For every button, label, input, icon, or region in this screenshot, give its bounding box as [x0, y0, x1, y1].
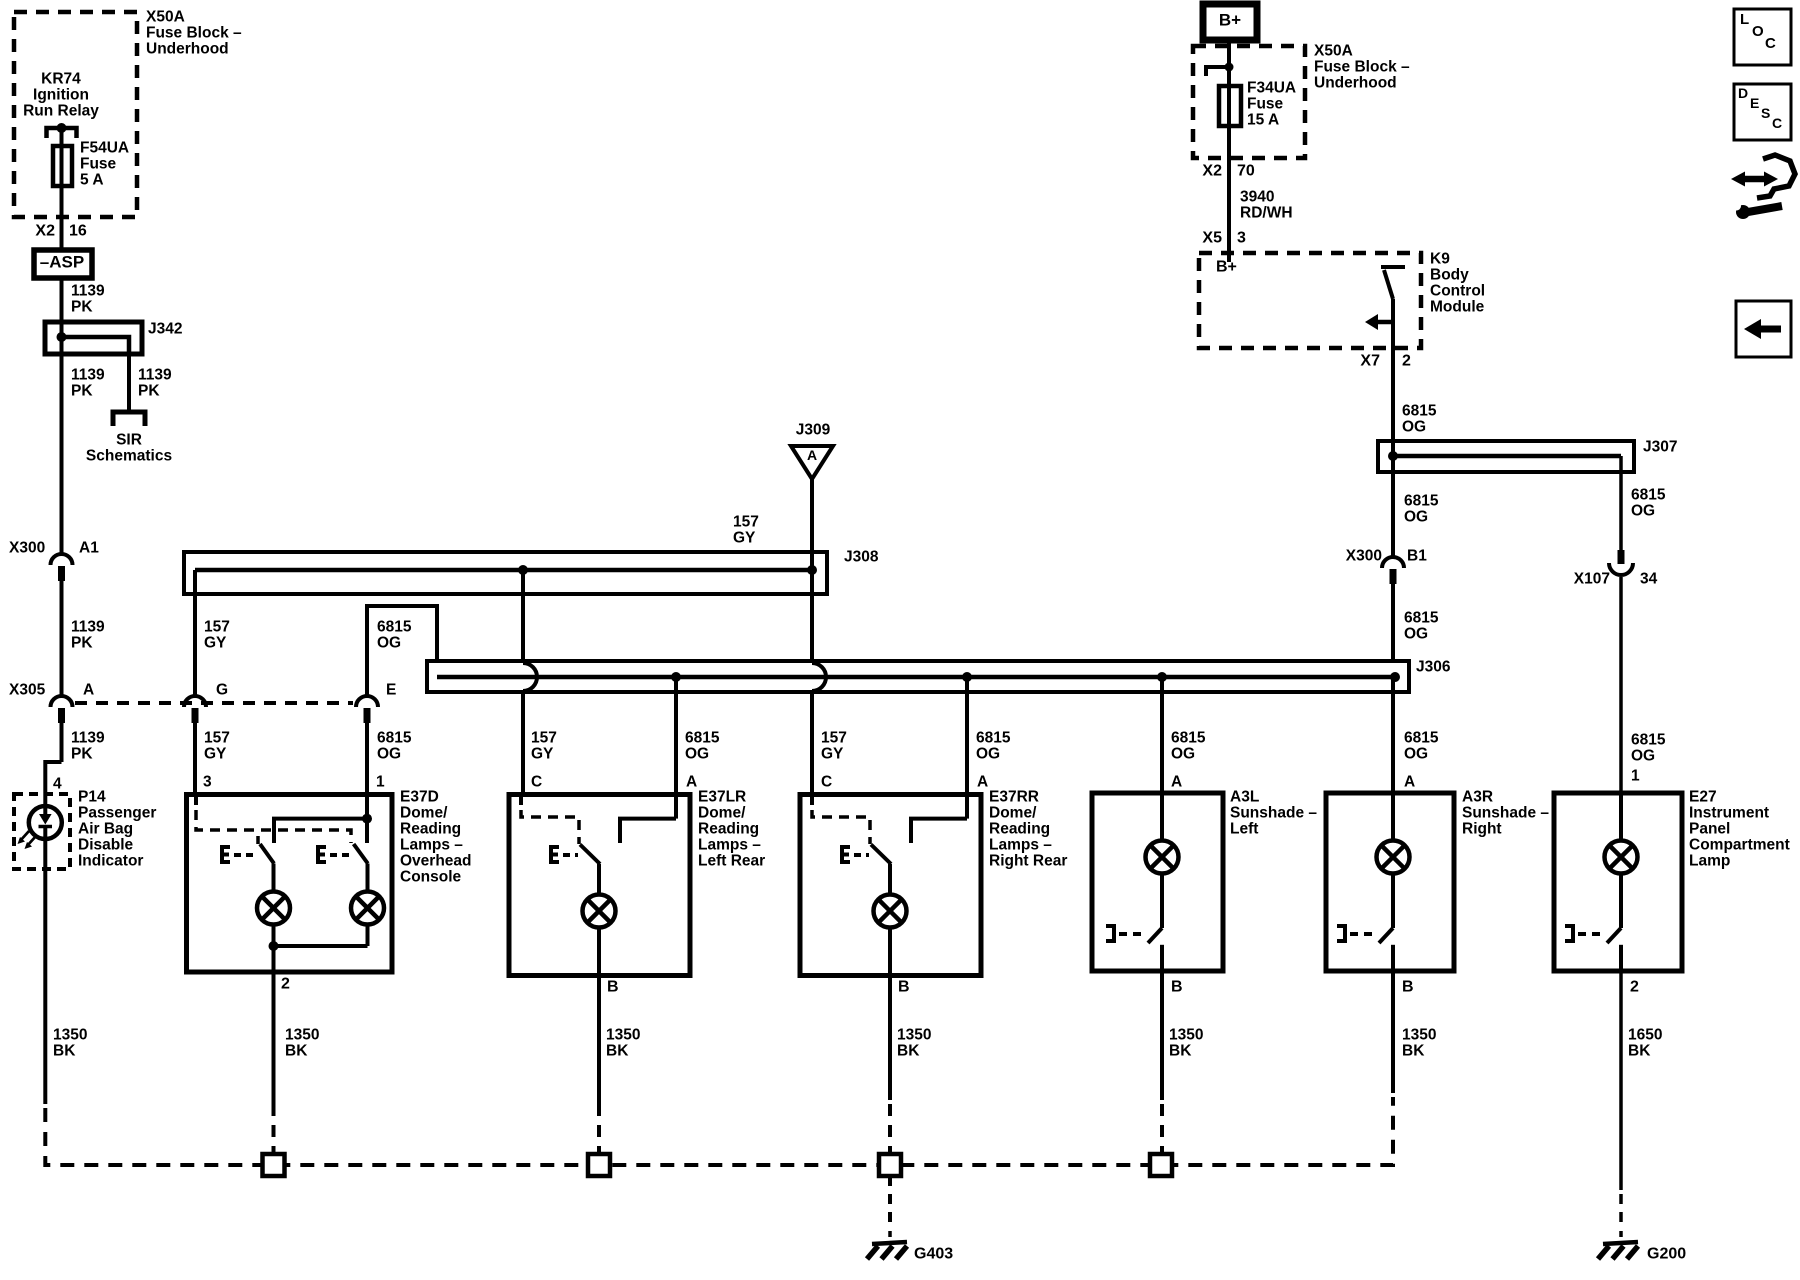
svg-text:Reading: Reading [989, 820, 1050, 837]
svg-text:B+: B+ [1219, 10, 1241, 29]
svg-text:Lamps –: Lamps – [698, 836, 761, 853]
svg-text:O: O [1752, 23, 1764, 40]
svg-text:1139: 1139 [71, 618, 105, 635]
svg-text:X107: X107 [1574, 570, 1610, 587]
svg-text:Passenger: Passenger [78, 804, 156, 821]
svg-text:GY: GY [204, 745, 227, 762]
svg-text:X5: X5 [1202, 230, 1222, 247]
svg-text:C: C [1772, 115, 1782, 131]
svg-text:F34UA: F34UA [1247, 79, 1296, 96]
svg-text:X7: X7 [1360, 353, 1380, 370]
svg-text:C: C [531, 773, 542, 790]
svg-text:E37D: E37D [400, 788, 439, 805]
svg-text:1350: 1350 [285, 1026, 319, 1043]
svg-text:BK: BK [53, 1042, 76, 1059]
svg-text:6815: 6815 [377, 618, 412, 635]
svg-text:Sunshade –: Sunshade – [1462, 804, 1549, 821]
svg-text:PK: PK [71, 298, 93, 315]
svg-text:K9: K9 [1430, 250, 1450, 267]
svg-text:1139: 1139 [71, 729, 105, 746]
svg-text:A: A [83, 681, 94, 698]
svg-text:OG: OG [1171, 745, 1195, 762]
svg-text:RD/WH: RD/WH [1240, 204, 1293, 221]
svg-text:E27: E27 [1689, 788, 1717, 805]
svg-text:Module: Module [1430, 298, 1485, 315]
svg-text:Disable: Disable [78, 836, 134, 853]
svg-text:C: C [821, 773, 832, 790]
svg-text:D: D [1738, 85, 1748, 101]
svg-text:OG: OG [1631, 747, 1655, 764]
svg-text:PK: PK [138, 382, 160, 399]
svg-text:6815: 6815 [1631, 731, 1666, 748]
svg-text:6815: 6815 [685, 729, 720, 746]
svg-text:Fuse: Fuse [1247, 95, 1284, 112]
svg-text:6815: 6815 [1404, 609, 1439, 626]
svg-text:157: 157 [531, 729, 557, 746]
svg-text:1139: 1139 [71, 282, 105, 299]
svg-text:16: 16 [69, 223, 87, 240]
svg-text:A: A [807, 447, 817, 463]
svg-text:Dome/: Dome/ [400, 804, 448, 821]
svg-text:157: 157 [204, 729, 230, 746]
svg-text:3: 3 [203, 773, 212, 790]
svg-text:E37LR: E37LR [698, 788, 746, 805]
svg-text:OG: OG [1404, 745, 1428, 762]
svg-text:Overhead: Overhead [400, 852, 472, 869]
svg-text:A: A [1404, 773, 1415, 790]
svg-text:BK: BK [1628, 1042, 1651, 1059]
svg-text:OG: OG [1404, 508, 1428, 525]
svg-text:Left Rear: Left Rear [698, 852, 765, 869]
svg-text:J307: J307 [1643, 438, 1677, 455]
svg-text:B+: B+ [1216, 259, 1237, 276]
svg-text:BK: BK [897, 1042, 920, 1059]
svg-text:34: 34 [1640, 570, 1658, 587]
svg-text:B: B [1171, 979, 1183, 996]
svg-text:1: 1 [1631, 767, 1640, 784]
svg-text:J308: J308 [844, 548, 879, 565]
svg-text:1350: 1350 [1169, 1026, 1203, 1043]
svg-text:1350: 1350 [897, 1026, 931, 1043]
svg-text:J306: J306 [1416, 658, 1451, 675]
svg-text:OG: OG [1404, 625, 1428, 642]
svg-text:KR74: KR74 [41, 70, 81, 87]
svg-text:6815: 6815 [1402, 402, 1437, 419]
svg-text:Sunshade –: Sunshade – [1230, 804, 1317, 821]
svg-text:1139: 1139 [138, 366, 172, 383]
svg-text:E37RR: E37RR [989, 788, 1039, 805]
svg-text:B: B [1402, 979, 1414, 996]
svg-text:A1: A1 [79, 539, 99, 556]
svg-text:Compartment: Compartment [1689, 836, 1790, 853]
svg-text:GY: GY [821, 745, 844, 762]
svg-text:OG: OG [1402, 418, 1426, 435]
svg-text:Ignition: Ignition [33, 86, 89, 103]
svg-text:157: 157 [733, 513, 759, 530]
svg-text:Fuse Block –: Fuse Block – [146, 24, 242, 41]
svg-text:1: 1 [376, 773, 385, 790]
svg-text:6815: 6815 [377, 729, 412, 746]
svg-text:A3R: A3R [1462, 788, 1493, 805]
svg-text:6815: 6815 [1171, 729, 1206, 746]
svg-text:6815: 6815 [1404, 729, 1439, 746]
svg-text:Reading: Reading [400, 820, 461, 837]
svg-text:BK: BK [285, 1042, 308, 1059]
svg-text:A: A [977, 773, 988, 790]
svg-text:Lamps –: Lamps – [400, 836, 463, 853]
svg-text:Right: Right [1462, 820, 1502, 837]
svg-text:BK: BK [606, 1042, 629, 1059]
svg-text:X50A: X50A [146, 8, 185, 25]
svg-text:Schematics: Schematics [86, 447, 172, 464]
svg-text:Control: Control [1430, 282, 1485, 299]
svg-text:G403: G403 [914, 1246, 953, 1263]
svg-text:3: 3 [1237, 230, 1246, 247]
svg-text:B: B [607, 979, 619, 996]
svg-text:E: E [386, 681, 396, 698]
svg-text:1350: 1350 [53, 1026, 87, 1043]
svg-text:Lamp: Lamp [1689, 852, 1730, 869]
svg-text:Fuse: Fuse [80, 155, 117, 172]
svg-text:Dome/: Dome/ [989, 804, 1037, 821]
svg-text:Reading: Reading [698, 820, 759, 837]
svg-text:X300: X300 [9, 539, 45, 556]
svg-text:X2: X2 [35, 223, 55, 240]
svg-text:70: 70 [1237, 163, 1255, 180]
svg-text:BK: BK [1169, 1042, 1192, 1059]
svg-text:X305: X305 [9, 681, 46, 698]
svg-text:J309: J309 [796, 421, 831, 438]
svg-text:X50A: X50A [1314, 42, 1353, 59]
svg-text:1350: 1350 [1402, 1026, 1436, 1043]
svg-text:A3L: A3L [1230, 788, 1259, 805]
svg-text:Console: Console [400, 868, 462, 885]
svg-text:1650: 1650 [1628, 1026, 1662, 1043]
svg-text:GY: GY [733, 529, 756, 546]
svg-text:2: 2 [1402, 353, 1411, 370]
svg-text:OG: OG [976, 745, 1000, 762]
svg-text:Run Relay: Run Relay [23, 102, 99, 119]
svg-text:2: 2 [1630, 979, 1639, 996]
svg-text:OG: OG [1631, 502, 1655, 519]
svg-text:F54UA: F54UA [80, 139, 129, 156]
svg-text:A: A [1171, 773, 1182, 790]
svg-text:157: 157 [204, 618, 230, 635]
svg-text:3940: 3940 [1240, 188, 1274, 205]
svg-text:BK: BK [1402, 1042, 1425, 1059]
svg-text:B1: B1 [1407, 547, 1427, 564]
svg-text:157: 157 [821, 729, 847, 746]
svg-text:1350: 1350 [606, 1026, 640, 1043]
svg-text:2: 2 [281, 976, 290, 993]
svg-text:6815: 6815 [976, 729, 1011, 746]
svg-text:PK: PK [71, 382, 93, 399]
svg-text:Underhood: Underhood [146, 40, 229, 57]
svg-text:6815: 6815 [1631, 486, 1666, 503]
svg-text:OG: OG [377, 745, 401, 762]
svg-text:E: E [1750, 95, 1759, 111]
svg-text:Left: Left [1230, 820, 1258, 837]
svg-text:–ASP: –ASP [40, 252, 84, 271]
svg-text:OG: OG [377, 634, 401, 651]
svg-text:J342: J342 [148, 320, 182, 337]
svg-text:Panel: Panel [1689, 820, 1730, 837]
svg-text:15 A: 15 A [1247, 111, 1279, 128]
svg-text:Air Bag: Air Bag [78, 820, 133, 837]
svg-text:A: A [686, 773, 697, 790]
svg-text:S: S [1761, 105, 1770, 121]
svg-text:Body: Body [1430, 266, 1469, 283]
svg-text:X2: X2 [1202, 163, 1222, 180]
svg-text:C: C [1765, 35, 1776, 52]
svg-text:L: L [1740, 11, 1749, 28]
svg-text:GY: GY [531, 745, 554, 762]
svg-text:PK: PK [71, 634, 93, 651]
svg-text:B: B [898, 979, 910, 996]
svg-text:P14: P14 [78, 788, 106, 805]
svg-text:6815: 6815 [1404, 492, 1439, 509]
svg-text:GY: GY [204, 634, 227, 651]
svg-text:Underhood: Underhood [1314, 74, 1397, 91]
svg-text:Dome/: Dome/ [698, 804, 746, 821]
svg-text:Fuse Block –: Fuse Block – [1314, 58, 1410, 75]
svg-text:1139: 1139 [71, 366, 105, 383]
svg-text:G200: G200 [1647, 1246, 1686, 1263]
svg-text:Lamps –: Lamps – [989, 836, 1052, 853]
svg-text:Instrument: Instrument [1689, 804, 1769, 821]
svg-text:4: 4 [53, 775, 62, 792]
svg-text:X300: X300 [1346, 547, 1382, 564]
svg-text:SIR: SIR [116, 431, 142, 448]
svg-text:OG: OG [685, 745, 709, 762]
svg-text:PK: PK [71, 745, 93, 762]
svg-text:Indicator: Indicator [78, 852, 143, 869]
svg-text:Right Rear: Right Rear [989, 852, 1067, 869]
svg-text:G: G [216, 681, 228, 698]
svg-text:5 A: 5 A [80, 171, 104, 188]
